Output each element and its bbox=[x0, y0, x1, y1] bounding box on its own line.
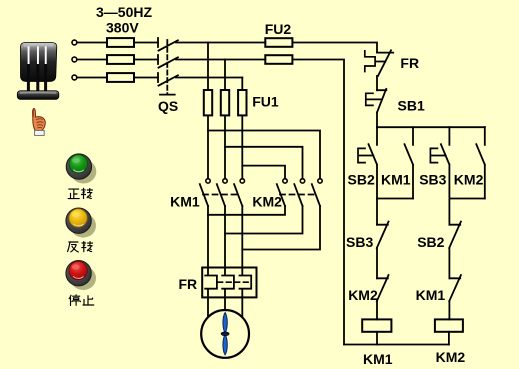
node L2 terminal bbox=[72, 57, 77, 62]
wire phase A drop bbox=[207, 43, 209, 91]
contactor KM2 linkage bbox=[280, 194, 317, 196]
relay FR heater 2 bbox=[222, 268, 234, 298]
wire FR to motor W bbox=[241, 297, 243, 317]
wire L3 bbox=[77, 77, 107, 79]
contactor KM1 pole1 bbox=[206, 179, 210, 183]
wire left branch down bbox=[376, 199, 378, 225]
label zhengzhuan (fwd) bbox=[68, 188, 93, 199]
wire L2 to QS bbox=[134, 59, 158, 61]
contactor KM2 pole2 bbox=[300, 179, 304, 183]
wire FU2-2 to left control rail bbox=[292, 60, 344, 345]
wire phase B to KM1 pole2 bbox=[224, 115, 226, 178]
lamp yellow (run-rev) bbox=[66, 208, 96, 238]
svg-text:SB2: SB2 bbox=[417, 234, 444, 250]
contact KM1 aux (NO latch) bbox=[405, 127, 414, 198]
motor M propeller bbox=[221, 313, 229, 355]
wire merge T1 bbox=[208, 206, 285, 215]
button SB2 interlock (NC) bbox=[449, 222, 461, 248]
wire merge T2 bbox=[225, 206, 303, 234]
svg-text:SB1: SB1 bbox=[398, 98, 425, 114]
switch QS linkage bbox=[166, 40, 168, 95]
contact KM1 interlock (NC) bbox=[449, 275, 461, 301]
svg-text:KM2: KM2 bbox=[348, 287, 378, 303]
svg-text:380V: 380V bbox=[106, 20, 139, 36]
wire to KM2 interlock bbox=[376, 248, 378, 278]
wire L3 after QS bbox=[176, 77, 242, 79]
wire FR to motor U bbox=[207, 297, 209, 317]
switch QS pole 3 bbox=[158, 73, 178, 86]
svg-text:FR: FR bbox=[400, 55, 419, 71]
contactor KM2 pole1 bbox=[283, 179, 287, 183]
wire L2 after QS bbox=[176, 59, 265, 61]
wire to coil KM1 bbox=[376, 301, 378, 319]
wire L1 after QS bbox=[176, 42, 265, 44]
wire branch A to KM2 pole3 bbox=[208, 131, 320, 179]
wire FR to motor V bbox=[224, 297, 226, 310]
wire KM1 pole1 out bbox=[207, 206, 209, 268]
fuse FU1-1 bbox=[204, 90, 212, 115]
svg-text:KM2: KM2 bbox=[252, 193, 282, 209]
wire control rail bbox=[377, 126, 485, 128]
wire to coil KM2 bbox=[448, 301, 450, 319]
label fanzhuan (rev) bbox=[67, 241, 93, 252]
relay FR box bbox=[202, 268, 256, 298]
contact KM2 aux (NO latch) bbox=[476, 127, 485, 198]
contact KM2 interlock (NC) bbox=[377, 275, 389, 301]
contactor KM1 pole3 bbox=[240, 179, 244, 183]
coil KM1 bbox=[362, 319, 391, 331]
contact FR control (NC thermal) bbox=[377, 50, 393, 76]
wire to KM1 interlock bbox=[448, 248, 450, 278]
node L3 terminal bbox=[72, 75, 77, 80]
wire phase A to KM1 pole1 bbox=[207, 115, 209, 178]
icon motor-stand bbox=[17, 43, 59, 100]
wire bottom rail bbox=[344, 344, 449, 346]
coil KM2 bbox=[435, 319, 463, 331]
wire L1 bbox=[77, 42, 107, 44]
button SB2 (NO fwd) bbox=[369, 127, 378, 198]
relay FR heater 1 bbox=[205, 268, 217, 298]
label tingzhi (stop) bbox=[69, 294, 94, 306]
switch QS pole 2 bbox=[158, 55, 178, 68]
wire FU2-1 to FR contact bbox=[292, 43, 377, 53]
svg-text:FU1: FU1 bbox=[252, 94, 279, 110]
wire L2 bbox=[77, 59, 107, 61]
fuse supply-1 bbox=[107, 38, 134, 47]
wire SB1 to rail bbox=[376, 113, 378, 128]
icon pointing-hand bbox=[33, 109, 46, 136]
relay FR heater 3 bbox=[240, 268, 252, 298]
wire KM1 pole2 out bbox=[224, 206, 226, 268]
wire merge T3 bbox=[242, 206, 320, 250]
svg-text:SB2: SB2 bbox=[348, 171, 375, 187]
contactor KM1 pole2 bbox=[223, 179, 227, 183]
fuse supply-3 bbox=[107, 73, 134, 82]
wire L1 to QS bbox=[134, 42, 158, 44]
fuse FU1-2 bbox=[221, 90, 229, 115]
svg-text:KM1: KM1 bbox=[381, 171, 411, 187]
wire right branch down bbox=[448, 199, 450, 225]
wire phase C to KM1 pole3 bbox=[241, 115, 243, 178]
wire merge left branch bbox=[377, 198, 413, 200]
fuse FU2-1 bbox=[265, 38, 292, 47]
svg-text:QS: QS bbox=[158, 98, 178, 114]
switch QS pole 1 bbox=[158, 38, 178, 51]
wire branch C to KM2 pole1 bbox=[242, 166, 285, 179]
contactor KM1 linkage bbox=[203, 194, 239, 196]
motor M body bbox=[201, 310, 249, 358]
fuse supply-2 bbox=[107, 55, 134, 64]
svg-text:SB3: SB3 bbox=[346, 234, 373, 250]
wire merge right branch bbox=[449, 198, 484, 200]
svg-text:SB3: SB3 bbox=[419, 171, 446, 187]
button SB1 (NC stop) bbox=[377, 89, 386, 113]
wire FR to SB1 bbox=[376, 76, 378, 90]
svg-text:FU2: FU2 bbox=[265, 21, 292, 37]
wire coil KM1 to rail bbox=[376, 332, 378, 345]
svg-text:KM2: KM2 bbox=[454, 171, 484, 187]
relay FR heater linkage bbox=[218, 281, 250, 283]
lamp red (stop) bbox=[66, 261, 96, 291]
contactor KM2 pole3 bbox=[318, 179, 322, 183]
fuse FU2-2 bbox=[265, 55, 292, 64]
button SB3 interlock (NC) bbox=[377, 222, 389, 248]
wire branch B to KM2 pole2 bbox=[225, 147, 303, 179]
svg-text:3—50HZ: 3—50HZ bbox=[96, 4, 152, 20]
svg-text:FR: FR bbox=[179, 276, 198, 292]
svg-text:KM1: KM1 bbox=[416, 287, 446, 303]
svg-text:KM2: KM2 bbox=[436, 349, 466, 365]
fuse FU1-3 bbox=[238, 90, 246, 115]
node L1 terminal bbox=[72, 40, 77, 45]
wire L3 to QS bbox=[134, 77, 158, 79]
wire phase C drop bbox=[241, 78, 243, 91]
lamp green (run-fwd) bbox=[66, 154, 96, 184]
wire coil KM2 to rail bbox=[448, 332, 450, 345]
wire KM1 pole3 out bbox=[241, 206, 243, 268]
button SB3 (NO rev) bbox=[441, 127, 450, 198]
svg-text:KM1: KM1 bbox=[170, 193, 200, 209]
switch QS handle bar bbox=[160, 94, 175, 96]
wire phase B drop bbox=[224, 60, 226, 91]
svg-text:KM1: KM1 bbox=[363, 351, 393, 367]
